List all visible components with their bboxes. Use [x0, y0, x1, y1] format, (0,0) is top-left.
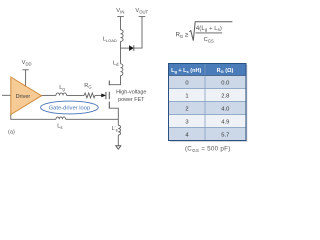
table header underline	[169, 75, 247, 77]
table grid lines	[169, 64, 247, 141]
svg-text:4.0: 4.0	[221, 107, 229, 113]
svg-text:0: 0	[185, 81, 188, 87]
transistor Q1 channel bottom segment	[108, 102, 110, 109]
gate arrow into Q1	[102, 94, 106, 97]
table data rows	[185, 81, 229, 139]
svg-text:Ld: Ld	[113, 61, 119, 67]
svg-text:power FET: power FET	[118, 97, 145, 103]
svg-text:VOUT: VOUT	[135, 8, 148, 14]
table row 4 stripe	[169, 128, 247, 141]
node VDD terminal bar	[22, 69, 28, 71]
svg-text:4(Lg + Ls): 4(Lg + Ls)	[196, 26, 222, 32]
table row 0 stripe	[169, 76, 247, 89]
gate-driver loop ellipse	[41, 101, 99, 114]
svg-text:2: 2	[185, 107, 188, 113]
svg-text:Gate-driver loop: Gate-driver loop	[49, 106, 91, 112]
svg-text:Lg: Lg	[59, 85, 65, 91]
wire Ls2 to ground	[117, 135, 119, 146]
inductor Ld	[121, 64, 123, 76]
svg-text:5.7: 5.7	[221, 133, 229, 139]
svg-text:3: 3	[185, 120, 188, 126]
svg-text:LLOAD: LLOAD	[103, 37, 117, 43]
wire VDD drop	[25, 70, 27, 86]
svg-text:Ls: Ls	[57, 124, 62, 130]
wire driver bottom drop	[11, 114, 56, 120]
transistor Q1 channel top segment	[108, 81, 110, 86]
svg-text:4.9: 4.9	[221, 120, 229, 126]
svg-text:G: G	[180, 34, 184, 39]
wire input stub	[2, 94, 11, 96]
inductor Lg	[56, 93, 67, 96]
svg-text:Driver: Driver	[16, 94, 31, 100]
driver U1	[11, 77, 42, 115]
svg-text:Lg + Ls (nH): Lg + Ls (nH)	[171, 68, 201, 74]
node VOUT terminal bar	[139, 16, 146, 18]
svg-text:High-voltage: High-voltage	[116, 90, 146, 96]
table shadow	[170, 65, 248, 142]
svg-text:VDD: VDD	[22, 60, 32, 66]
wire diode to VOUT rail	[134, 17, 142, 48]
svg-text:1: 1	[185, 94, 188, 100]
transistor Q1 gate bar	[105, 92, 107, 99]
diode D1	[129, 46, 133, 51]
table body background	[169, 64, 247, 141]
formula fraction bar	[196, 32, 223, 34]
inductor Ls2	[118, 125, 120, 135]
svg-text:L’s: L’s	[112, 126, 118, 132]
table row 2 stripe	[169, 102, 247, 115]
table header band	[169, 64, 247, 76]
wire diode branch anode	[121, 47, 130, 49]
transistor Q1 channel mid segment	[108, 92, 110, 99]
svg-text:0.0: 0.0	[221, 81, 229, 87]
svg-text:≥: ≥	[185, 32, 189, 39]
wire return loop to source	[66, 118, 119, 120]
table outer border	[169, 64, 247, 141]
inductor Ls	[56, 117, 66, 119]
wire gate segment driver to Lg	[42, 94, 57, 96]
svg-text:RG (Ω): RG (Ω)	[217, 68, 234, 74]
wire source lead	[109, 108, 118, 125]
resistor RG	[84, 93, 95, 98]
ground	[116, 146, 121, 149]
svg-text:(a): (a)	[8, 130, 15, 136]
svg-text:RG: RG	[84, 83, 91, 89]
wire drain lead	[109, 76, 120, 85]
formula radical sign	[189, 22, 232, 41]
node VIN terminal bar	[117, 16, 124, 18]
svg-text:CGS: CGS	[204, 37, 214, 43]
wire VIN rail middle	[120, 42, 122, 64]
svg-text:VIN: VIN	[116, 8, 124, 14]
svg-text:(CGS = 500 pF): (CGS = 500 pF)	[185, 145, 231, 152]
wire VIN rail upper	[120, 17, 122, 30]
svg-text:2.8: 2.8	[221, 94, 229, 100]
wire RG to gate arrow	[95, 94, 102, 96]
diode D1 cathode bar	[133, 45, 135, 51]
inductor LLOAD	[121, 30, 124, 42]
wire Lg to RG	[67, 94, 85, 96]
